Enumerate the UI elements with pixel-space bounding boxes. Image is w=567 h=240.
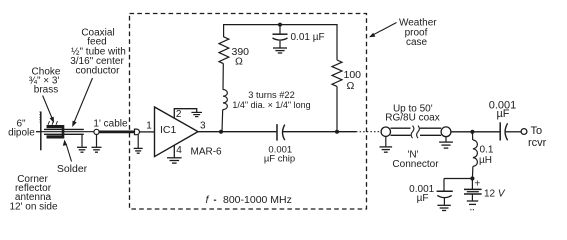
label: f = 800-1000 MHz [206,194,292,206]
svg-text:Solder: Solder [57,163,88,175]
svg-text:4: 4 [176,145,182,156]
coax feed tube [44,129,84,134]
capacitor C4 0.001 uF (to receiver) [500,122,507,140]
svg-text:rcvr: rcvr [528,137,547,149]
capacitor C1 0.01 uF bypass [273,25,288,48]
arrow from Choke label to choke sleeve [43,96,54,124]
node: output junction with bias coil [219,130,223,134]
inductor L2 0.1 uH (RF choke) [472,132,477,179]
dash between f and range [214,199,216,201]
wire: dotted feedthrough at case wall [356,131,381,133]
svg-text:Ω: Ω [235,56,243,68]
ground (battery) [467,201,478,210]
connector J2 'N' (receiver side) [441,127,451,137]
op-amp IC1 (MAR-6 MMIC) [155,107,199,157]
dipole element [39,112,42,151]
node: rail / bypass cap junction [278,23,282,27]
ground (cable-start connector) [92,135,102,153]
svg-text:µH: µH [479,155,492,166]
svg-text:0.1: 0.1 [480,144,494,155]
battery BT1 12 V [464,179,482,201]
label: 3 turns #22, 1/4" dia x 1/4" long [232,90,310,110]
label: Coaxial feed 1/2" tube with 3/16" center conductor [70,28,126,77]
wire: cap to output terminal [506,131,521,133]
svg-text:brass: brass [34,85,58,96]
resistor R2 100 ohm [332,60,342,86]
resistor R1 390 ohm [219,37,229,64]
center conductor [41,131,94,133]
capacitor C3 0.001 uF (DC bypass) [437,179,453,205]
wire: 390 ohm resistor to coil [222,64,224,90]
wire: N connector to DC feed junction [451,131,500,133]
capacitor C2 0.001 uF chip (coupling) [277,124,285,141]
svg-text:+: + [474,178,480,190]
label: To rcvr [528,125,547,149]
pin 2 wire to ground [174,109,196,119]
connector at cable start [94,129,99,134]
wire: coupling cap to output junction [283,131,356,133]
svg-text:Connector: Connector [392,159,439,170]
label: Weather proof case [399,17,437,48]
label: Choke 3/4" x 3' brass [29,67,61,96]
svg-text:0.01 µF: 0.01 µF [291,32,325,43]
choke sleeve (brass) [47,121,65,139]
label: Up to 50' RG/8U coax [385,103,439,123]
svg-text:1: 1 [146,120,152,131]
wire: coil to junction [221,109,224,131]
svg-text:IC1: IC1 [160,124,177,136]
svg-text:RG/8U coax: RG/8U coax [385,113,439,124]
label: Corner reflector antenna 12' on side [9,174,57,213]
cable-end connector plug [135,129,140,135]
svg-text:2: 2 [176,109,182,120]
node: battery / bypass junction [470,176,474,180]
label: 6" dipole [8,119,35,139]
svg-text:µF chip: µF chip [264,154,295,165]
svg-text:12 V: 12 V [484,189,506,200]
ground (bypass cap) [273,48,287,53]
svg-text:800-1000 MHz: 800-1000 MHz [223,194,292,206]
svg-text:3 turns #22: 3 turns #22 [248,90,295,100]
arrow from Weather proof case label to case [369,23,397,38]
ground (N connector case side) [380,136,393,152]
label: 'N' Connector [392,150,439,171]
ground (cable-end connector) [134,135,143,154]
svg-text:1/4" dia. × 1/4" long: 1/4" dia. × 1/4" long [232,100,310,110]
node: output junction [335,130,339,134]
svg-text:MAR-6: MAR-6 [191,146,223,157]
arrow from Solder label to choke end cap [63,140,72,162]
svg-text:12' on side: 12' on side [9,202,57,213]
wire: rail to 100 ohm [336,25,338,60]
wire: top supply rail [223,24,338,26]
pin 4 wire to ground [173,145,175,157]
feed stub (dipole to center conductor) [36,131,41,133]
svg-text:To: To [531,125,543,137]
wire: junction to bypass cap [444,178,472,180]
svg-text:µF: µF [417,193,429,204]
wire: connector to pin 1 [140,131,155,133]
svg-text:Ω: Ω [347,80,355,92]
svg-text:3: 3 [200,120,206,131]
arrow from Coaxial feed label to coax tube [72,78,92,127]
ground (N connector receiver side) [439,137,453,148]
wire: pin 3 output to coupling cap [198,131,276,133]
node: DC feed junction [470,130,474,134]
svg-text:dipole: dipole [8,128,35,139]
1' cable (thick coax run) [99,130,134,133]
svg-text:case: case [406,37,428,48]
ground (coax shield) [77,134,87,152]
svg-text:µF: µF [496,108,509,120]
ground (DC bypass cap) [437,205,450,210]
svg-text:conductor: conductor [76,66,121,77]
ground (pin 2) [191,112,202,116]
wire: 100 ohm to output line [336,86,338,131]
terminal: To rcvr [521,129,527,135]
inductor L1 (3 turns #22) [223,90,227,110]
connector J1 'N' (case side) [381,127,390,136]
ground (pin 4) [167,158,182,163]
svg-text:1' cable: 1' cable [93,119,128,130]
weatherproof case (dashed enclosure) [130,14,367,210]
wire: rail to 390 ohm [223,25,225,38]
coax run (RG/8U) [391,126,442,139]
